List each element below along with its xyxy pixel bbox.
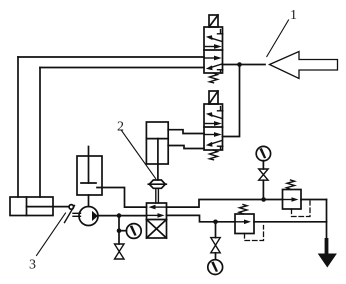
relief valve RV1 pilot dashed line: [292, 201, 311, 217]
shutoff valve V3 (top right): [259, 169, 268, 180]
wire branch below lower line: [215, 222, 217, 238]
valve U2 top box horizontal arrow: [205, 121, 222, 126]
hollow arrow inlet symbol: [270, 52, 338, 79]
wire right vertical drain: [326, 200, 328, 241]
cam valve upper box right arrow: [147, 213, 165, 218]
valve U2 top box diagonal arrow: [206, 112, 222, 118]
roller pivot circle: [69, 205, 74, 210]
wire junction A down to valve U2: [223, 65, 240, 137]
wire inner left vertical: [39, 68, 41, 198]
horizontal cylinder C1: [10, 197, 53, 216]
pump lever link: [65, 206, 81, 223]
node junction dot B: [117, 213, 122, 218]
valve U2 top box blocked port T: [218, 107, 223, 111]
node junction dot C: [261, 197, 266, 202]
valve U2 return spring: [210, 150, 218, 160]
valve U1 bottom box blocked port T: [218, 70, 223, 73]
valve U1 top box blocked port T: [218, 30, 223, 34]
tank vent pipe: [81, 147, 96, 184]
wire cylinder port P2 to valve U2: [168, 146, 204, 149]
cylinder C1 rod: [27, 206, 70, 208]
relief valve RV1 arrow: [284, 197, 299, 202]
relief valve RV2 pilot dashed line: [245, 226, 264, 241]
valve U2 bottom box diagonal arrow: [206, 141, 222, 147]
pressure gauge G2: [208, 260, 223, 275]
valve U1 return spring: [210, 73, 218, 83]
pressure gauge G1: [126, 224, 141, 239]
wire pump suction: [88, 195, 90, 207]
valve U1 actuator box: [209, 15, 218, 27]
cam valve upper box left arrow: [149, 205, 167, 210]
node junction dot A: [237, 62, 242, 67]
wire branch below pump line: [118, 216, 120, 244]
wire lower line continuation: [254, 221, 327, 223]
relief valve RV2 (lower) body: [235, 214, 254, 234]
svg-text:1: 1: [290, 8, 297, 23]
node junction dot E: [117, 228, 122, 233]
relief valve RV1 (upper) body: [283, 190, 302, 210]
relief valve RV1 spring: [287, 180, 295, 190]
wire valve U1 output right: [223, 64, 266, 66]
roller follower: [148, 180, 166, 188]
shutoff valve V2 (bottom): [211, 238, 220, 253]
cam valve stem: [156, 189, 159, 203]
valve U1 top box diagonal arrow: [206, 35, 222, 41]
valve U1 bottom box diagonal arrow: [206, 64, 222, 70]
valve U2 bottom box blocked port T: [218, 146, 223, 149]
valve U1 body: [204, 27, 223, 73]
wire to bottom gauge: [215, 253, 217, 260]
wire outer top line: [18, 56, 204, 58]
label 1 leader line: [267, 20, 289, 57]
wire cam valve out upper to pressure line: [167, 200, 283, 208]
valve U2 body: [204, 104, 223, 150]
wire pressure line continuation: [301, 199, 327, 201]
valve U2 actuator box: [209, 91, 218, 104]
shutoff valve V1 (left): [115, 244, 125, 259]
wire pump outlet to cam valve: [98, 215, 147, 217]
tank reservoir: [77, 156, 102, 195]
pressure gauge G3: [256, 146, 270, 160]
wire tank return line to cam valve: [97, 188, 147, 208]
wire cam valve out lower to lower line: [167, 215, 236, 221]
valve U2 bottom box horizontal arrow: [205, 132, 222, 137]
wire to left gauge: [119, 230, 126, 232]
cam valve body: [147, 203, 167, 238]
wire gauge G3 drop: [262, 161, 264, 169]
valve U1 bottom box horizontal arrow: [205, 56, 222, 61]
wire inner top line: [40, 67, 204, 69]
node junction dot D: [213, 220, 218, 225]
label 2 leader line: [122, 131, 156, 179]
pump P1: [79, 207, 98, 226]
outlet black arrow: [318, 238, 337, 268]
relief valve RV2 arrow: [236, 220, 251, 225]
valve U1 top box horizontal arrow: [205, 44, 222, 49]
relief valve RV2 spring: [239, 205, 247, 215]
cam valve closed box X: [147, 220, 167, 239]
cylinder C2 vertical body: [146, 122, 168, 164]
svg-text:3: 3: [29, 258, 36, 273]
wire cylinder port P1 to valve U2: [168, 130, 204, 134]
cylinder C2 rod: [157, 164, 159, 180]
svg-text:2: 2: [117, 120, 124, 135]
label 3 leader line: [37, 213, 66, 256]
wire V3 to pressure line: [262, 180, 264, 199]
wire outer left vertical: [17, 57, 19, 197]
